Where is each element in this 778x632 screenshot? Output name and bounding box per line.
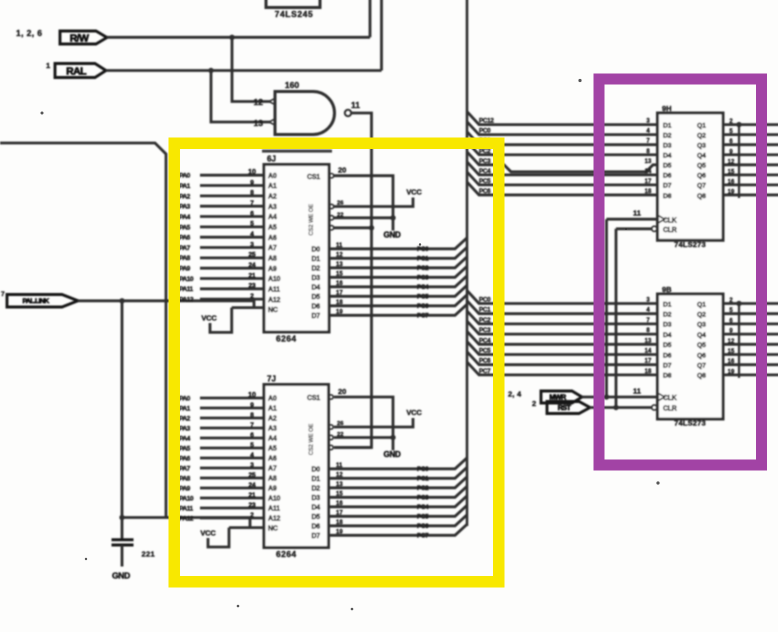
svg-text:VCC: VCC: [200, 529, 216, 538]
wire 9H CLR to clear net: [616, 227, 652, 230]
svg-text:D8: D8: [663, 373, 672, 380]
wire clock net riser: [605, 219, 608, 397]
svg-text:D5: D5: [311, 294, 320, 301]
svg-text:25: 25: [248, 252, 256, 259]
svg-text:D5: D5: [663, 163, 672, 170]
svg-text:10: 10: [248, 169, 256, 176]
svg-text:Q8: Q8: [697, 193, 706, 200]
svg-text:18: 18: [645, 369, 652, 375]
svg-text:A6: A6: [268, 456, 277, 463]
svg-text:13: 13: [336, 262, 343, 268]
svg-text:CLR: CLR: [663, 227, 677, 234]
svg-text:VCC: VCC: [406, 408, 422, 417]
wire MWR to 9B CLK: [582, 396, 657, 399]
svg-text:26: 26: [337, 201, 344, 207]
svg-text:VCC: VCC: [201, 314, 217, 323]
svg-text:6J: 6J: [267, 155, 276, 164]
svg-text:Q3: Q3: [697, 143, 706, 150]
svg-text:PA8: PA8: [179, 255, 191, 262]
svg-text:PA9: PA9: [179, 485, 191, 492]
svg-text:Q4: Q4: [697, 153, 706, 160]
svg-text:PC6: PC6: [479, 188, 491, 195]
svg-text:PA6: PA6: [179, 235, 191, 242]
svg-text:D1: D1: [663, 122, 672, 129]
svg-text:PA4: PA4: [179, 214, 191, 221]
svg-text:Q8: Q8: [697, 373, 706, 380]
register 9B 74LS273: [652, 285, 723, 428]
svg-text:2: 2: [250, 512, 254, 519]
wire 7J pin 22: [334, 436, 393, 439]
svg-text:13: 13: [254, 118, 264, 128]
svg-text:15: 15: [728, 349, 735, 355]
svg-text:PA10: PA10: [179, 276, 194, 283]
capacitor 221: [112, 540, 155, 567]
svg-text:Q7: Q7: [697, 183, 706, 190]
svg-text:15: 15: [336, 271, 343, 277]
svg-text:11: 11: [633, 209, 641, 218]
svg-text:9: 9: [250, 402, 254, 409]
RAM 6J 6264: [264, 155, 334, 344]
svg-text:D1: D1: [311, 256, 320, 263]
svg-text:D7: D7: [311, 533, 320, 540]
svg-text:PA12: PA12: [179, 297, 194, 304]
pin numbers 9B input side: [645, 298, 652, 375]
svg-text:25: 25: [248, 472, 256, 479]
svg-text:11: 11: [336, 243, 343, 249]
svg-text:21: 21: [248, 492, 256, 499]
svg-text:Q5: Q5: [697, 342, 706, 349]
svg-text:24: 24: [248, 482, 256, 489]
svg-text:74LS273: 74LS273: [674, 240, 706, 249]
svg-text:A2: A2: [268, 193, 277, 200]
svg-text:15: 15: [336, 491, 343, 497]
svg-text:D4: D4: [663, 332, 672, 339]
wire junction down to capacitor: [121, 301, 124, 539]
svg-text:CS1: CS1: [307, 395, 320, 402]
svg-text:6: 6: [250, 210, 254, 217]
net labels PA0-PA12 at 7J: [179, 395, 194, 522]
svg-text:Q5: Q5: [697, 163, 706, 170]
svg-text:A1: A1: [268, 183, 277, 190]
svg-text:PC5: PC5: [479, 178, 491, 185]
junction RAL to NAND branch: [208, 68, 213, 73]
wires 7J D0-D7 to data bus: [329, 458, 467, 536]
svg-text:PC4: PC4: [479, 337, 491, 344]
svg-text:6: 6: [250, 432, 254, 439]
svg-text:A8: A8: [268, 476, 277, 483]
svg-text:Q1: Q1: [697, 122, 706, 129]
svg-text:17: 17: [645, 359, 652, 365]
junction 6J pin 22 to ground net: [390, 215, 395, 220]
svg-text:12: 12: [254, 97, 264, 107]
junction on 9H Q1 output: [736, 122, 741, 127]
wire 9H CLK to clock net: [607, 218, 658, 221]
svg-text:A12: A12: [268, 297, 281, 304]
svg-text:PC2: PC2: [479, 317, 491, 324]
svg-text:PC7: PC7: [479, 368, 491, 375]
svg-text:PC5: PC5: [479, 348, 491, 355]
svg-text:D7: D7: [663, 183, 672, 190]
svg-text:A4: A4: [268, 436, 277, 443]
wires 9H Q1-Q8 outputs to edge: [723, 125, 778, 195]
net label RAL with sheet ref 1: [46, 61, 106, 78]
wire 6J pin 22: [334, 216, 393, 219]
svg-text:16: 16: [336, 501, 343, 507]
wire NAND output 11 down to 7J WE: [334, 113, 372, 448]
svg-text:8: 8: [250, 190, 254, 197]
svg-text:PC6: PC6: [417, 303, 429, 310]
svg-text:R/W: R/W: [70, 32, 89, 44]
svg-text:PA9: PA9: [179, 266, 191, 273]
svg-text:4: 4: [250, 231, 254, 238]
svg-text:PC5: PC5: [417, 514, 429, 521]
svg-text:3: 3: [250, 462, 254, 469]
net labels on 9B input wires: [479, 297, 491, 375]
svg-text:PA3: PA3: [179, 204, 191, 211]
svg-text:16: 16: [336, 281, 343, 287]
svg-text:10: 10: [248, 392, 256, 399]
svg-text:6264: 6264: [276, 334, 297, 344]
pin numbers 6J data pins: [336, 243, 343, 315]
svg-text:Q6: Q6: [697, 173, 706, 180]
svg-text:Q2: Q2: [697, 132, 706, 139]
svg-text:7: 7: [250, 422, 254, 429]
junction clear net: [613, 405, 618, 410]
svg-text:PC3: PC3: [479, 158, 491, 165]
svg-text:PC0: PC0: [417, 466, 429, 473]
svg-text:7: 7: [1, 291, 5, 298]
svg-text:D3: D3: [663, 143, 672, 150]
svg-text:2, 4: 2, 4: [508, 390, 522, 399]
svg-text:7J: 7J: [267, 375, 276, 384]
svg-text:PC7: PC7: [417, 533, 429, 540]
svg-text:D0: D0: [311, 467, 320, 474]
svg-text:74LS273: 74LS273: [674, 419, 706, 428]
svg-text:CLK: CLK: [663, 395, 677, 402]
svg-text:PA1: PA1: [179, 405, 191, 412]
svg-text:A10: A10: [268, 276, 281, 283]
pin numbers 7J data pins: [336, 463, 343, 536]
wire PAL.LINK to 6J NC pin: [78, 301, 264, 308]
svg-text:PC6: PC6: [479, 358, 491, 365]
svg-text:PA0: PA0: [179, 395, 191, 402]
svg-text:Q3: Q3: [697, 322, 706, 329]
svg-text:9: 9: [250, 179, 254, 186]
svg-text:11: 11: [633, 387, 641, 396]
svg-text:PA0: PA0: [179, 173, 191, 180]
net labels on 9H input wires: [479, 118, 494, 195]
svg-text:19: 19: [728, 369, 735, 375]
net label R/W with sheet refs 1,2,6: [16, 28, 107, 44]
svg-text:2: 2: [532, 399, 536, 408]
svg-text:PA2: PA2: [179, 415, 191, 422]
wire 6J WE pin 27: [334, 226, 372, 229]
junction on 9B Q1 output: [736, 301, 741, 306]
svg-text:D4: D4: [663, 153, 672, 160]
svg-text:PC6: PC6: [417, 523, 429, 530]
svg-text:CS2 WE OE: CS2 WE OE: [309, 424, 315, 456]
svg-text:PC3: PC3: [417, 495, 429, 502]
junction PAL.LINK / capacitor branch: [119, 298, 124, 303]
pin numbers 9H output side: [728, 119, 735, 195]
wire stub crossing 9H outputs: [738, 125, 740, 198]
svg-text:PA8: PA8: [179, 475, 191, 482]
wires PA0-PA12 to 6J A0-A12: [200, 175, 264, 299]
svg-text:24: 24: [248, 262, 256, 269]
power VCC at 6J pin 28: [201, 308, 231, 333]
svg-text:18: 18: [336, 300, 343, 306]
svg-text:NC: NC: [268, 307, 278, 314]
svg-text:22: 22: [337, 212, 343, 218]
svg-text:D5: D5: [311, 514, 320, 521]
svg-text:1: 1: [46, 61, 50, 70]
svg-text:RAL: RAL: [66, 65, 87, 77]
wire clear net riser: [615, 229, 618, 408]
svg-text:NC: NC: [268, 526, 278, 533]
svg-text:1, 2, 6: 1, 2, 6: [16, 28, 42, 38]
svg-text:7: 7: [250, 200, 254, 207]
svg-text:12: 12: [728, 339, 735, 345]
svg-text:A9: A9: [268, 486, 277, 493]
svg-text:CS1: CS1: [307, 174, 320, 181]
svg-text:14: 14: [645, 349, 652, 355]
svg-text:A5: A5: [268, 224, 277, 231]
wire stub crossing 9B outputs: [738, 304, 740, 378]
svg-text:A11: A11: [268, 286, 280, 293]
svg-text:D6: D6: [663, 352, 672, 359]
svg-text:A8: A8: [268, 255, 277, 262]
svg-text:PC4: PC4: [417, 284, 429, 291]
svg-text:160: 160: [285, 80, 299, 90]
svg-text:18: 18: [336, 520, 343, 526]
svg-text:PC1: PC1: [479, 307, 491, 314]
register 9H 74LS273: [652, 104, 723, 249]
svg-text:13: 13: [336, 482, 343, 488]
net label MWR with sheet refs 2,4: [508, 390, 582, 404]
svg-text:2: 2: [250, 293, 254, 300]
junction clock net: [604, 394, 609, 399]
IC U1 74LS245 (top, cut off): [266, 0, 320, 19]
svg-text:20: 20: [338, 166, 346, 175]
power VCC at 7J pin 28: [200, 528, 229, 547]
svg-text:12: 12: [336, 252, 343, 258]
svg-text:D3: D3: [311, 275, 320, 282]
svg-text:CLK: CLK: [663, 217, 677, 224]
junction 7J pin 22 to ground net: [390, 435, 395, 440]
svg-text:14: 14: [645, 169, 652, 175]
wire from left edge routed down to 7J: [0, 143, 166, 518]
svg-text:PC1: PC1: [417, 256, 429, 263]
svg-text:9B: 9B: [662, 285, 672, 294]
svg-text:A11: A11: [268, 506, 280, 513]
net label PAL.LINK: [1, 291, 78, 307]
svg-text:26: 26: [337, 421, 344, 427]
svg-text:D7: D7: [663, 363, 672, 370]
net labels PC0-PC7 on 6J data wires: [417, 246, 429, 320]
svg-text:15: 15: [728, 169, 735, 175]
svg-text:12: 12: [336, 472, 343, 478]
svg-text:23: 23: [248, 502, 256, 509]
svg-text:PC0: PC0: [479, 128, 491, 135]
wire RST to 9B CLR: [590, 406, 652, 409]
net labels PA0-PA12 at 6J: [179, 173, 194, 304]
net labels PC0-PC7 on 7J data wires: [417, 466, 429, 539]
svg-text:Q7: Q7: [697, 363, 706, 370]
svg-text:PA10: PA10: [179, 495, 194, 502]
svg-text:A10: A10: [268, 496, 281, 503]
svg-text:PA5: PA5: [179, 224, 191, 231]
svg-text:PC12: PC12: [479, 118, 494, 125]
svg-text:A3: A3: [268, 204, 277, 211]
junction feed to 7J: [119, 515, 124, 520]
svg-text:D6: D6: [311, 304, 320, 311]
svg-text:Q4: Q4: [697, 332, 706, 339]
svg-text:5: 5: [250, 221, 254, 228]
svg-text:PC7: PC7: [417, 313, 429, 320]
svg-text:D4: D4: [311, 285, 320, 292]
svg-text:3: 3: [250, 241, 254, 248]
svg-text:PC0: PC0: [417, 246, 429, 253]
svg-text:GND: GND: [384, 230, 401, 239]
svg-text:9H: 9H: [662, 104, 672, 113]
wires bus to 9B D1-D8: [467, 291, 658, 375]
svg-text:D3: D3: [311, 495, 320, 502]
svg-text:D8: D8: [663, 193, 672, 200]
svg-text:Q6: Q6: [697, 352, 706, 359]
svg-text:VCC: VCC: [406, 188, 422, 197]
svg-text:PC0: PC0: [479, 297, 491, 304]
highlight purple annotation box: [599, 79, 762, 465]
wires PA0-PA12 to 7J A0-A12: [200, 398, 264, 518]
svg-text:PA6: PA6: [179, 455, 191, 462]
svg-text:A9: A9: [268, 266, 277, 273]
svg-text:PC4: PC4: [479, 168, 491, 175]
wire RAL net: [106, 0, 382, 71]
pin numbers 6J address side: [248, 169, 256, 300]
svg-text:PA3: PA3: [179, 425, 191, 432]
highlight yellow annotation box: [174, 143, 499, 582]
wires 9B Q1-Q8 outputs to edge: [723, 304, 778, 375]
svg-text:20: 20: [338, 387, 346, 396]
bus data bus vertical: [466, 0, 469, 526]
svg-text:RST: RST: [558, 403, 572, 412]
svg-text:12: 12: [728, 159, 735, 165]
svg-text:A3: A3: [268, 426, 277, 433]
net label RST with sheet ref 2: [532, 399, 590, 414]
svg-text:A2: A2: [268, 416, 277, 423]
svg-text:A12: A12: [268, 516, 281, 523]
svg-text:221: 221: [142, 550, 155, 559]
svg-text:11: 11: [336, 463, 343, 469]
svg-text:D7: D7: [311, 313, 320, 320]
svg-text:PAL.LINK: PAL.LINK: [22, 298, 49, 305]
svg-text:CLR: CLR: [663, 406, 677, 413]
svg-text:PC3: PC3: [479, 327, 491, 334]
svg-text:A1: A1: [268, 406, 277, 413]
svg-text:22: 22: [337, 432, 343, 438]
svg-text:D0: D0: [311, 247, 320, 254]
svg-text:13: 13: [645, 159, 652, 165]
svg-text:18: 18: [645, 189, 652, 195]
svg-text:19: 19: [728, 189, 735, 195]
wire 6J pin 26 to VCC: [334, 198, 413, 207]
svg-text:PC5: PC5: [417, 294, 429, 301]
svg-text:PA7: PA7: [179, 465, 191, 472]
svg-text:8: 8: [250, 412, 254, 419]
NAND gate U2 160: [254, 80, 361, 135]
svg-text:D2: D2: [311, 486, 320, 493]
svg-text:D6: D6: [663, 173, 672, 180]
svg-text:PA1: PA1: [179, 183, 191, 190]
svg-text:CS2 WE OE: CS2 WE OE: [309, 204, 315, 236]
svg-text:A7: A7: [268, 466, 277, 473]
svg-text:16: 16: [728, 359, 735, 365]
svg-text:Q1: Q1: [697, 301, 706, 308]
wire R/W net: [107, 0, 370, 37]
svg-text:19: 19: [336, 529, 343, 535]
svg-text:5: 5: [250, 442, 254, 449]
svg-text:PA12: PA12: [179, 515, 194, 522]
svg-text:17: 17: [336, 510, 343, 516]
svg-text:GND: GND: [384, 450, 401, 459]
wire 6J CS1 pin 20 to ground: [334, 176, 393, 231]
svg-text:PA2: PA2: [179, 193, 191, 200]
svg-text:PC1: PC1: [417, 476, 429, 483]
svg-text:D3: D3: [663, 322, 672, 329]
wire feed to 7J NC pin: [122, 518, 264, 528]
svg-text:A0: A0: [268, 173, 277, 180]
wire R/W junction to NAND pin 12: [232, 37, 270, 101]
svg-text:PA5: PA5: [179, 445, 191, 452]
pin numbers 6J control pins: [337, 201, 344, 219]
svg-text:11: 11: [351, 100, 360, 110]
svg-text:A0: A0: [268, 396, 277, 403]
svg-text:D2: D2: [311, 266, 320, 273]
svg-text:GND: GND: [112, 571, 130, 581]
pin numbers 7J control pins: [337, 421, 344, 438]
svg-text:13: 13: [645, 338, 652, 344]
svg-text:PA11: PA11: [179, 505, 193, 512]
junction NAND output to 6J WE: [369, 225, 374, 230]
wire RAL junction to NAND pin 13: [211, 71, 270, 123]
svg-text:D2: D2: [663, 312, 672, 319]
wires 6J D0-D7 to data bus: [329, 238, 467, 315]
svg-text:23: 23: [248, 283, 256, 290]
svg-text:6264: 6264: [276, 549, 297, 559]
svg-text:A4: A4: [268, 214, 277, 221]
svg-text:D6: D6: [311, 524, 320, 531]
svg-text:19: 19: [336, 309, 343, 315]
svg-text:PA7: PA7: [179, 245, 191, 252]
wire 7J WE pin 27: [334, 446, 372, 449]
svg-text:17: 17: [645, 179, 652, 185]
junction R/W to NAND branch: [229, 35, 234, 40]
svg-text:A5: A5: [268, 446, 277, 453]
wire 7J pin 26 to VCC: [334, 418, 413, 427]
svg-text:D1: D1: [311, 476, 320, 483]
svg-text:4: 4: [250, 452, 254, 459]
svg-text:D5: D5: [663, 342, 672, 349]
svg-text:PA4: PA4: [179, 435, 191, 442]
svg-text:A7: A7: [268, 245, 277, 252]
svg-text:PC3: PC3: [417, 275, 429, 282]
svg-text:Q2: Q2: [697, 312, 706, 319]
svg-text:D2: D2: [663, 132, 672, 139]
svg-text:D1: D1: [663, 301, 672, 308]
wires bus to 9H D1-D8: [467, 112, 658, 195]
pin numbers 7J address side: [248, 392, 256, 519]
svg-text:PC2: PC2: [417, 265, 429, 272]
